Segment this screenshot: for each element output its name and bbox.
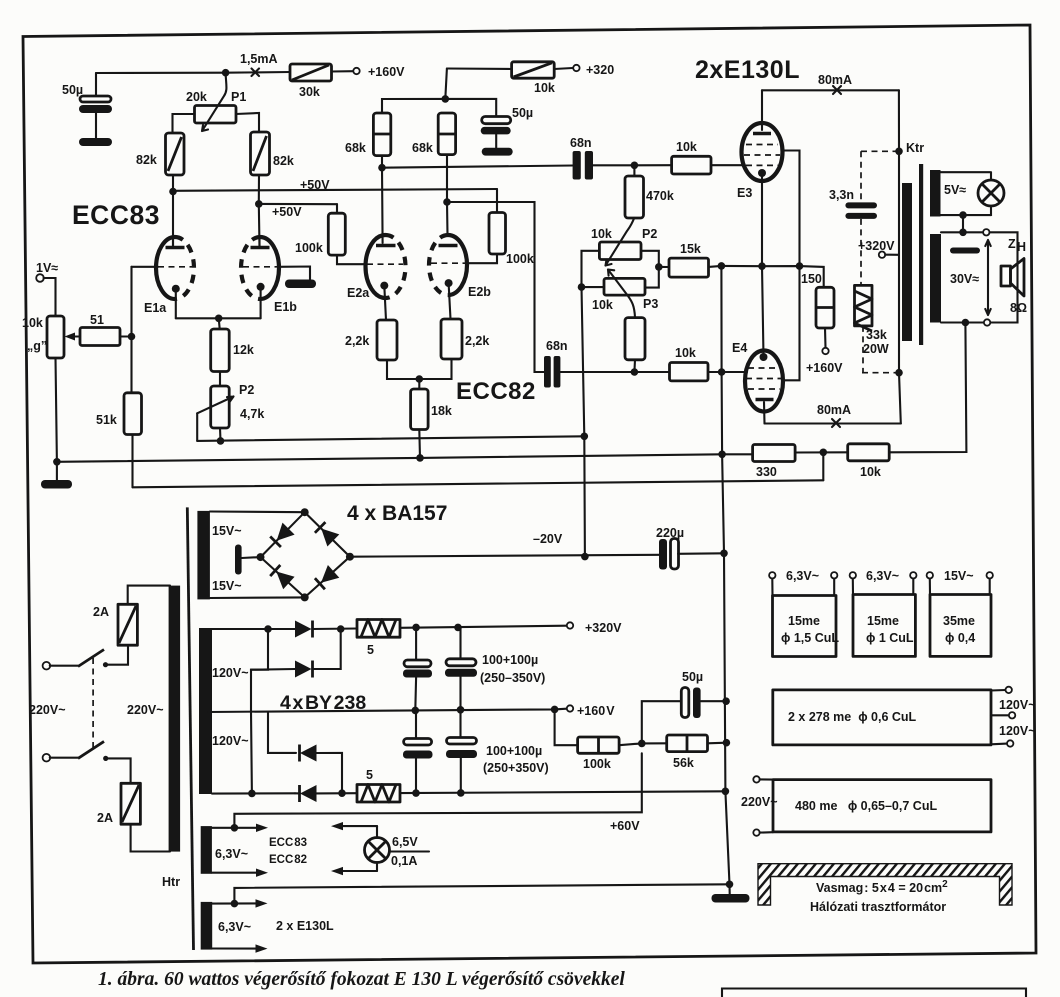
node E1a plate bbox=[169, 188, 177, 196]
svg-text:120V~: 120V~ bbox=[999, 698, 1036, 712]
node cap1a top bbox=[412, 624, 420, 632]
node input ground bbox=[53, 458, 61, 466]
node -20V bias takeoff bbox=[581, 553, 589, 561]
wire node up to 50u bbox=[642, 701, 681, 743]
svg-text:P3: P3 bbox=[643, 297, 658, 311]
svg-text:6,5V: 6,5V bbox=[392, 835, 418, 849]
current mark x bbox=[252, 69, 260, 77]
wire 56k to right vertical bbox=[708, 742, 727, 745]
svg-text:2 x E130L: 2 x E130L bbox=[276, 919, 334, 933]
wire +320 rectifier rail bbox=[212, 628, 295, 630]
svg-text:15V~: 15V~ bbox=[212, 524, 242, 538]
node E2a plate bbox=[378, 164, 386, 172]
resistor 2,2k E2b cathode bbox=[441, 319, 489, 359]
potentiometer P1 20k bbox=[186, 73, 246, 131]
wire node to 18k bbox=[418, 379, 420, 389]
wire P2 left bracket bbox=[582, 251, 600, 287]
terminal +160V psu bbox=[567, 705, 573, 711]
svg-text:68n: 68n bbox=[546, 339, 568, 353]
winding box 2x278me bbox=[773, 687, 1036, 747]
switch upper lever bbox=[78, 650, 104, 667]
wire E1b plate node down bbox=[258, 204, 261, 246]
terminal +320V anode bbox=[858, 239, 899, 258]
svg-text:+320V: +320V bbox=[858, 239, 895, 253]
svg-text:120V~: 120V~ bbox=[999, 724, 1036, 738]
svg-text:10k: 10k bbox=[591, 227, 612, 241]
+50V rail no2 bbox=[259, 204, 337, 219]
wire heater upper top lead with arrow bbox=[212, 824, 268, 832]
svg-text:Vasmag : 5 x 4 = 20 cm2: Vasmag : 5 x 4 = 20 cm2 bbox=[816, 879, 948, 895]
resistor 18k bbox=[411, 389, 452, 430]
wire D6 branch left bbox=[251, 629, 268, 712]
node D2 branch top bbox=[264, 625, 272, 633]
terminal +320 bbox=[573, 65, 579, 71]
svg-text:50µ: 50µ bbox=[512, 106, 533, 120]
svg-text:E2a: E2a bbox=[347, 286, 370, 300]
diode bridge D4 bbox=[315, 565, 339, 589]
wire bottom 80mA loop bbox=[765, 422, 901, 424]
diode bridge D2 bbox=[315, 522, 339, 546]
resistor 33k 20W bbox=[855, 285, 889, 356]
resistor 10k to +320 bbox=[512, 62, 555, 95]
wire plate node down to E2a bbox=[381, 168, 384, 243]
resistor 10k E3 grid bbox=[672, 140, 711, 174]
diode bridge D1 bbox=[270, 523, 294, 547]
svg-text:330: 330 bbox=[756, 465, 777, 479]
dashed snubber box top edge bbox=[861, 150, 896, 152]
wire heater upper bottom lead with arrow bbox=[212, 869, 268, 877]
wire node to 50u2 bbox=[445, 99, 496, 117]
resistor R 82k left bbox=[136, 133, 184, 175]
svg-text:15k: 15k bbox=[680, 242, 701, 256]
svg-text:6,3V~: 6,3V~ bbox=[866, 569, 899, 583]
wire D7 row bbox=[268, 712, 296, 753]
wire -20V line bbox=[350, 555, 660, 557]
svg-text:E1b: E1b bbox=[274, 300, 297, 314]
wire 30V winding bottom bbox=[941, 321, 984, 323]
svg-text:0,1A: 0,1A bbox=[391, 854, 417, 868]
switch lower contact bbox=[103, 756, 108, 761]
wire centertap to bridge bbox=[242, 556, 261, 559]
node bias line A junction bbox=[581, 433, 589, 441]
node cap1b top bbox=[454, 624, 462, 632]
svg-text:82k: 82k bbox=[273, 154, 294, 168]
wire E2b plate coupling to 68n2 bbox=[447, 202, 544, 372]
svg-text:4,7k: 4,7k bbox=[240, 407, 264, 421]
svg-text:100k: 100k bbox=[295, 241, 323, 255]
svg-text:2 x 278 me ϕ 0,6 CuL: 2 x 278 me ϕ 0,6 CuL bbox=[788, 710, 917, 724]
wire P1 left to 82k#1 bbox=[173, 114, 195, 133]
svg-text:6,3V~: 6,3V~ bbox=[786, 569, 819, 583]
svg-text:Ktr: Ktr bbox=[906, 141, 924, 155]
node E4 grid junction bbox=[631, 368, 639, 376]
node E1b plate bbox=[255, 200, 263, 208]
terminal 30V bottom bbox=[984, 319, 990, 325]
wire E3 screen to right vertical bbox=[783, 151, 800, 381]
wire 51k down to line C bbox=[131, 435, 133, 488]
wire 12k to P2 4k7 bbox=[219, 372, 221, 387]
wire P2 right bracket bbox=[641, 251, 659, 288]
node D8 branch bbox=[338, 789, 346, 797]
svg-text:Hálózati trasztformátor: Hálózati trasztformátor bbox=[810, 900, 946, 914]
svg-text:ECC 83: ECC 83 bbox=[269, 837, 307, 849]
svg-text:56k: 56k bbox=[673, 756, 694, 770]
wire heater ground line bbox=[234, 884, 729, 903]
capacitor 50u bias bbox=[681, 670, 726, 718]
node 15k tap bbox=[655, 263, 663, 271]
wire +320 feed top bbox=[447, 67, 512, 70]
node D6 branch top bbox=[337, 625, 345, 633]
wire P1 right to 82k#2 bbox=[236, 113, 259, 132]
capacitor 3,3n bbox=[829, 188, 877, 219]
ground G2 input bbox=[41, 462, 72, 489]
svg-text:2xE130L: 2xE130L bbox=[695, 56, 800, 84]
dashed link 3,3n to 33k bbox=[860, 219, 862, 286]
svg-text:10k: 10k bbox=[22, 316, 43, 330]
winding box 480me bbox=[741, 776, 991, 836]
triode E1a bbox=[132, 237, 194, 318]
switch upper contact bbox=[103, 662, 108, 667]
svg-text:1V≈: 1V≈ bbox=[36, 261, 58, 275]
wire heater lower bottom lead with arrow bbox=[212, 944, 267, 952]
wire fuse resistor to +320 terminal bbox=[400, 626, 567, 628]
resistor 56k bbox=[642, 735, 708, 770]
node E1a grid bbox=[128, 333, 136, 341]
ground G1 below C1 bbox=[79, 138, 112, 146]
triode E2b bbox=[429, 235, 491, 319]
fuse 2A upper bbox=[93, 604, 137, 645]
svg-text:(250+350V): (250+350V) bbox=[483, 761, 549, 775]
current mark x top bbox=[833, 86, 841, 94]
wire 68k1 to plate node bbox=[381, 156, 383, 168]
svg-text:50µ: 50µ bbox=[62, 83, 83, 97]
wire node to 30k bbox=[226, 71, 290, 74]
node +60V junction bbox=[638, 740, 646, 748]
svg-text:Z: Z bbox=[1008, 237, 1016, 251]
winding box 6,3V no2 bbox=[850, 569, 917, 656]
svg-text:50µ: 50µ bbox=[682, 670, 703, 684]
bridge rectifier diamond bbox=[210, 508, 354, 601]
terminal +320V psu bbox=[567, 622, 573, 628]
terminal +160V bbox=[353, 68, 359, 74]
dashed snubber box bottom edge bbox=[862, 372, 896, 374]
svg-text:ϕ 1,5 CuL: ϕ 1,5 CuL bbox=[781, 631, 839, 645]
wire D7 branch vertical bbox=[250, 712, 253, 794]
resistor 10k E4 grid stopper bbox=[634, 346, 708, 381]
svg-text:ϕ 1 CuL: ϕ 1 CuL bbox=[866, 631, 914, 645]
node NFB divider bbox=[820, 449, 828, 457]
wire centertap +160 line bbox=[208, 709, 567, 712]
svg-text:51k: 51k bbox=[96, 413, 117, 427]
resistor 100k no1 bbox=[295, 213, 345, 255]
svg-text:15me: 15me bbox=[867, 614, 899, 628]
wire to +320 terminal bbox=[554, 68, 572, 69]
resistor 470k bbox=[625, 165, 674, 218]
diode D7 BY238 bbox=[300, 745, 343, 794]
winding 15V bar bbox=[197, 511, 210, 600]
mains terminal lower bbox=[43, 754, 51, 762]
node top rail bbox=[222, 69, 230, 77]
node bottom rail capB bbox=[457, 789, 465, 797]
svg-text:+320V: +320V bbox=[585, 621, 622, 635]
wire 150 to +160V terminal bbox=[824, 328, 827, 348]
svg-text:E4: E4 bbox=[732, 341, 747, 355]
wire node down to line C bbox=[822, 452, 824, 480]
capacitor 68n no1 bbox=[570, 136, 634, 180]
svg-text:20W: 20W bbox=[863, 342, 889, 356]
wire 10k to E3 bbox=[711, 164, 743, 166]
wire line A bias bbox=[197, 436, 584, 441]
terminal +160V lower bbox=[822, 348, 828, 354]
svg-text:+160V: +160V bbox=[806, 361, 843, 375]
svg-text:5: 5 bbox=[367, 643, 374, 657]
wire E1 cathodes join bbox=[176, 317, 261, 319]
ground bar 50u2 bbox=[482, 148, 513, 156]
diode D8 BY238 bbox=[295, 785, 357, 802]
svg-text:480 me ϕ 0,65–0,7 CuL: 480 me ϕ 0,65–0,7 CuL bbox=[795, 799, 937, 813]
wire line B cathode return bbox=[57, 454, 753, 462]
svg-text:2A: 2A bbox=[97, 811, 113, 825]
wire to switch lower bbox=[50, 757, 78, 759]
node bottom rail capA bbox=[412, 789, 420, 797]
resistor 68k no2 bbox=[412, 113, 456, 155]
wire P2b bottom to node bbox=[219, 428, 222, 441]
wire 5V winding bottom bbox=[941, 214, 992, 216]
current mark x bottom bbox=[832, 419, 840, 427]
wire anode bus right vertical bbox=[899, 90, 901, 423]
svg-text:ϕ 0,4: ϕ 0,4 bbox=[945, 631, 975, 645]
svg-text:+320: +320 bbox=[586, 63, 614, 77]
svg-text:35me: 35me bbox=[943, 614, 975, 628]
node line B at right vertical bbox=[718, 451, 726, 459]
node 18k on line B bbox=[416, 454, 424, 462]
svg-text:„g”: „g” bbox=[27, 339, 47, 353]
resistor 30k bbox=[290, 64, 332, 99]
potentiometer P2 10k bbox=[591, 218, 657, 266]
pilot lamp 6,5V 0,1A bbox=[365, 835, 430, 868]
wire fuse lower to primary bottom bbox=[131, 824, 170, 851]
svg-text:18k: 18k bbox=[431, 404, 452, 418]
+50V rail no1 bbox=[173, 178, 497, 213]
wire terminal top link bbox=[990, 232, 1018, 322]
node centertap capB bbox=[457, 706, 465, 714]
wire to 10k grid stopper bbox=[634, 164, 671, 166]
node B+ preamp bbox=[442, 95, 450, 103]
pilot lamp leads with arrows bbox=[331, 822, 377, 875]
winding 6,3V heater lower bar bbox=[201, 902, 213, 950]
iron core note hatched frame bbox=[758, 864, 1012, 914]
svg-text:ECC82: ECC82 bbox=[456, 378, 536, 405]
wire 5V winding top bbox=[941, 171, 991, 173]
svg-text:100k: 100k bbox=[506, 252, 534, 266]
svg-text:220V~: 220V~ bbox=[127, 703, 164, 717]
mains transformer core line bbox=[187, 507, 193, 950]
svg-text:5: 5 bbox=[366, 768, 373, 782]
node E2 cathode join bbox=[416, 375, 424, 383]
svg-text:1,5mA: 1,5mA bbox=[240, 52, 278, 66]
wire D5 to fuse resistor bbox=[313, 627, 358, 630]
polarity bar 30V bbox=[950, 248, 980, 254]
node E3 cathode junction bbox=[758, 262, 766, 270]
svg-text:Htr: Htr bbox=[162, 875, 180, 889]
node cathode join bbox=[215, 315, 223, 323]
svg-text:E1a: E1a bbox=[144, 301, 167, 315]
wire heater lower top lead with arrow bbox=[212, 899, 267, 907]
svg-text:H: H bbox=[1017, 240, 1026, 254]
wire 30k to +160V terminal bbox=[332, 70, 354, 72]
wire top rail to node bbox=[96, 72, 226, 74]
svg-text:12k: 12k bbox=[233, 343, 254, 357]
wire contact to fuse upper bbox=[106, 645, 129, 665]
svg-text:+50V: +50V bbox=[300, 178, 330, 192]
wire pot bottom to line B bbox=[56, 358, 57, 462]
wire long right vertical to ground bbox=[721, 266, 729, 894]
wire 100k drop from +160 bbox=[555, 709, 578, 745]
svg-text:10k: 10k bbox=[676, 140, 697, 154]
resistor 100k no2 bbox=[489, 213, 534, 267]
wire node to 68k1 bbox=[382, 99, 445, 113]
switch lower lever bbox=[78, 741, 104, 758]
lamp 5V bbox=[978, 172, 1004, 215]
potentiometer P2 4,7k bbox=[197, 383, 264, 441]
svg-text:10k: 10k bbox=[860, 465, 881, 479]
wire cathode line to 150R bbox=[721, 266, 823, 287]
wire to switch upper bbox=[50, 665, 78, 667]
fusible resistor 5 lower bbox=[357, 768, 400, 802]
wire contact to fuse lower bbox=[106, 758, 131, 783]
svg-text:10k: 10k bbox=[675, 346, 696, 360]
capacitor 68n no2 bbox=[544, 339, 634, 388]
svg-text:+160 V: +160 V bbox=[577, 704, 615, 718]
mains transformer primary bar bbox=[169, 586, 181, 852]
mains terminal upper bbox=[43, 662, 51, 670]
wire 30V winding top to terminal bbox=[941, 231, 983, 233]
wire 5V to 30V bbox=[962, 215, 964, 232]
node dashed box bottom bbox=[895, 369, 903, 377]
resistor 51 with wiper arrow bbox=[65, 313, 121, 346]
wire +320 drop to node bbox=[445, 69, 447, 99]
winding box 6,3V no1 bbox=[769, 569, 839, 657]
resistor R below P3 bbox=[625, 318, 645, 372]
wire 100k1 to E2a grid bbox=[337, 255, 365, 264]
measuring arrow 30V bbox=[985, 240, 990, 315]
wire cathode resistors join bbox=[387, 359, 452, 379]
potentiometer 10k input bbox=[22, 316, 64, 358]
wire 51 to node bbox=[120, 335, 132, 337]
svg-text:15V~: 15V~ bbox=[212, 579, 242, 593]
svg-text:3,3n: 3,3n bbox=[829, 188, 854, 202]
wire coupling line to 68n1 bbox=[382, 166, 573, 168]
svg-text:68n: 68n bbox=[570, 136, 592, 150]
resistor 68k no1 bbox=[345, 113, 391, 156]
wire fuse upper to primary top bbox=[128, 586, 170, 605]
winding 120V bar bbox=[199, 628, 212, 794]
node E3 grid junction bbox=[631, 162, 639, 170]
svg-text:15me: 15me bbox=[788, 614, 820, 628]
svg-text:+60V: +60V bbox=[610, 819, 640, 833]
svg-text:100k: 100k bbox=[583, 757, 611, 771]
svg-text:2,2k: 2,2k bbox=[345, 334, 369, 348]
wire line C bbox=[133, 480, 824, 487]
pentode E4 bbox=[732, 266, 783, 423]
svg-text:1. ábra. 60 wattos végerősítő: 1. ábra. 60 wattos végerősítő fokozat E … bbox=[98, 969, 625, 990]
winding 15V centertap bar bbox=[235, 545, 242, 575]
svg-text:E2b: E2b bbox=[468, 285, 491, 299]
svg-text:33k: 33k bbox=[866, 328, 887, 342]
output transformer primary bar bbox=[902, 183, 912, 341]
triode E1b bbox=[241, 237, 310, 318]
svg-text:68k: 68k bbox=[345, 141, 366, 155]
svg-text:6,3V~: 6,3V~ bbox=[218, 920, 251, 934]
svg-text:+50V: +50V bbox=[272, 205, 302, 219]
wire 100k2 to E2b grid bbox=[467, 254, 497, 263]
resistor 12k bbox=[211, 329, 254, 372]
svg-text:82k: 82k bbox=[136, 153, 157, 167]
output transformer core bbox=[919, 164, 923, 345]
svg-text:–20V: –20V bbox=[533, 532, 563, 546]
fuse 2A lower bbox=[97, 783, 140, 825]
svg-text:6,3V~: 6,3V~ bbox=[215, 847, 248, 861]
svg-text:ECC 82: ECC 82 bbox=[269, 854, 307, 866]
svg-text:+160V: +160V bbox=[368, 65, 405, 79]
node cathode line left bbox=[718, 262, 726, 270]
wire node to P3 left bbox=[582, 286, 605, 288]
node heater bias bbox=[231, 824, 239, 832]
node screens junction bbox=[796, 262, 804, 270]
wire bottom psu rail bbox=[212, 792, 295, 794]
terminal 30V top bbox=[983, 229, 989, 235]
node +160 takeoff bbox=[551, 706, 559, 714]
wire E2b plate down bbox=[446, 202, 449, 235]
winding box 15V bbox=[927, 569, 993, 656]
capacitor 50u screen bbox=[481, 106, 533, 148]
svg-text:P1: P1 bbox=[231, 90, 246, 104]
resistor R 82k right bbox=[251, 132, 294, 175]
svg-text:ECC83: ECC83 bbox=[72, 200, 160, 230]
output transformer 5V winding bar bbox=[930, 170, 941, 217]
capacitor 100+100u upper pair bbox=[403, 627, 545, 710]
svg-text:68k: 68k bbox=[412, 141, 433, 155]
node heater ground at vertical bbox=[726, 881, 734, 889]
diode bridge D3 bbox=[270, 565, 294, 589]
node 50u at right vertical bbox=[722, 697, 730, 705]
node NFB takeoff bbox=[962, 319, 970, 327]
svg-text:E3: E3 bbox=[737, 186, 752, 200]
wire 10k to E4 bbox=[708, 371, 747, 373]
node bottom rail at right vertical bbox=[722, 788, 730, 796]
speaker bbox=[1001, 259, 1024, 297]
node 30V top bbox=[959, 229, 967, 237]
resistor 330 NFB bbox=[753, 445, 796, 480]
svg-text:10k: 10k bbox=[534, 81, 555, 95]
triode E2a bbox=[347, 235, 405, 320]
svg-text:20k: 20k bbox=[186, 90, 207, 104]
svg-text:8Ω: 8Ω bbox=[1010, 301, 1027, 315]
svg-text:2,2k: 2,2k bbox=[465, 334, 489, 348]
svg-text:120V~: 120V~ bbox=[212, 734, 249, 748]
dashed link to 3,3n bbox=[860, 151, 862, 202]
input terminal 1V bbox=[36, 261, 58, 316]
svg-text:5V≈: 5V≈ bbox=[944, 183, 966, 197]
output transformer 30V winding bar bbox=[930, 234, 941, 323]
dashed link 33k to box bottom bbox=[862, 326, 864, 373]
svg-text:470k: 470k bbox=[646, 189, 674, 203]
svg-text:150: 150 bbox=[801, 272, 822, 286]
wire top 80mA loop bbox=[762, 89, 899, 91]
wire node to 12k bbox=[219, 318, 220, 329]
wire NFB down to 10k bbox=[889, 323, 966, 453]
capacitor C1 50u input decoupling bbox=[62, 73, 112, 138]
